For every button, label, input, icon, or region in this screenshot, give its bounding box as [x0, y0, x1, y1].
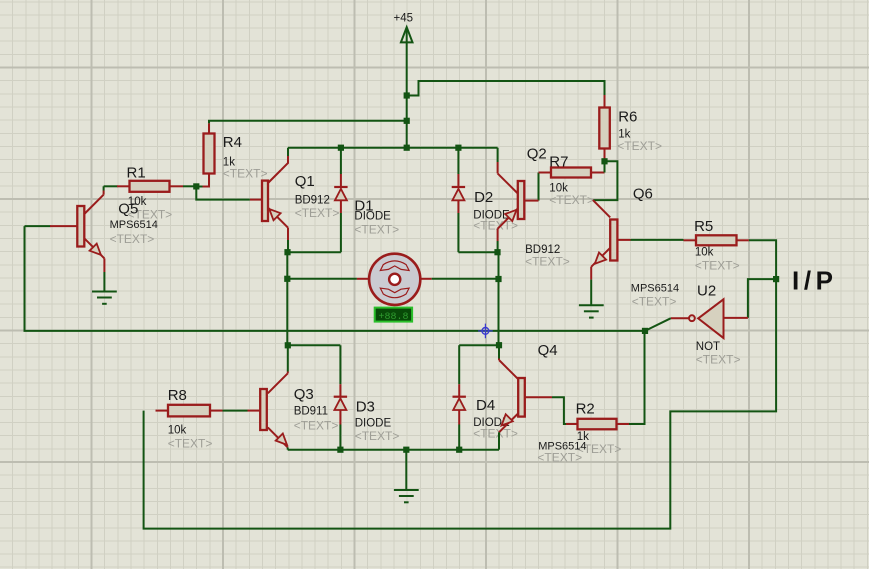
svg-text:R4: R4: [223, 134, 242, 151]
junction +45 jog: [404, 92, 410, 98]
junction R6-R7-Q6: [601, 158, 607, 164]
diode D1 symbol: [334, 187, 347, 200]
svg-text:<TEXT>: <TEXT>: [695, 259, 740, 273]
motor M1: [369, 254, 420, 305]
ground bottom symbol: [394, 490, 419, 502]
svg-text:R8: R8: [168, 387, 187, 404]
diode D1: [340, 148, 342, 253]
junction node A: [285, 342, 291, 348]
junction motor left: [284, 276, 290, 282]
wire R7 right to node: [591, 161, 605, 172]
svg-text:Q3: Q3: [294, 386, 314, 403]
diode D1 labels: [354, 198, 399, 237]
wire motor right vertical: [498, 252, 500, 345]
wire +45 to R4 top: [209, 121, 407, 134]
junction D3 bottom: [337, 447, 343, 453]
svg-text:10k: 10k: [168, 425, 187, 437]
resistor R8: [156, 387, 223, 451]
junction I/P node: [773, 276, 779, 282]
svg-text:Q5: Q5: [118, 201, 138, 218]
transistor Q3 labels: [294, 386, 339, 433]
transistor Q5 labels: [110, 201, 158, 247]
resistor R5: [684, 218, 749, 273]
svg-text:<TEXT>: <TEXT>: [617, 139, 662, 153]
svg-text:+45: +45: [394, 12, 414, 24]
power +45 symbol: [394, 12, 414, 147]
svg-text:<TEXT>: <TEXT>: [294, 419, 339, 433]
diode D3 symbol: [334, 397, 347, 410]
wire bottom feedback loop I/P to R8: [144, 240, 777, 528]
svg-text:U2: U2: [697, 283, 716, 300]
wire U2 output diagonal: [645, 318, 689, 331]
svg-text:<TEXT>: <TEXT>: [537, 451, 582, 465]
junction R1-R4-Q1: [193, 183, 199, 189]
svg-text:<TEXT>: <TEXT>: [355, 429, 400, 443]
svg-text:<TEXT>: <TEXT>: [549, 193, 594, 207]
junction U2 output: [642, 328, 648, 334]
svg-text:<TEXT>: <TEXT>: [223, 167, 268, 181]
transistor Q4 labels: [537, 342, 586, 465]
transistor Q2: [498, 148, 539, 253]
svg-text:R5: R5: [694, 218, 713, 235]
origin marker: [478, 324, 493, 339]
wire Q6 base to R5: [631, 239, 684, 241]
wire motor right lead: [419, 278, 498, 280]
ground Q6 emitter: [579, 305, 604, 317]
diode D4 symbol: [453, 397, 466, 410]
diode D2 symbol: [452, 187, 465, 200]
wire node A to D3 top: [288, 344, 341, 346]
svg-text:Q1: Q1: [295, 173, 315, 190]
wire R2 right to feedback rail: [629, 331, 645, 424]
label I/P: [792, 266, 838, 296]
transistor Q4: [499, 345, 552, 450]
svg-text:<TEXT>: <TEXT>: [696, 353, 741, 367]
motor display +88.8: [375, 308, 412, 323]
ground bottom rail: [405, 450, 407, 490]
svg-text:BD912: BD912: [295, 195, 330, 207]
junction D2 top: [455, 145, 461, 151]
junction +45 R4: [404, 118, 410, 124]
transistor Q6 labels: [631, 186, 679, 309]
svg-text:MPS6514: MPS6514: [631, 283, 679, 295]
wire node to Q6 collector: [593, 161, 618, 200]
junction ground rail: [403, 447, 409, 453]
svg-text:NOT: NOT: [696, 341, 720, 353]
wire Q5 collector to R1: [104, 185, 118, 187]
svg-text:D3: D3: [356, 399, 375, 416]
resistor R2: [566, 401, 629, 457]
wire bottom bridge rail: [288, 449, 499, 451]
svg-text:<TEXT>: <TEXT>: [354, 223, 399, 237]
svg-text:<TEXT>: <TEXT>: [525, 255, 570, 269]
diode D4: [458, 345, 460, 450]
svg-text:<TEXT>: <TEXT>: [473, 427, 518, 441]
junction Q1 emitter: [284, 249, 290, 255]
svg-text:BD911: BD911: [294, 406, 328, 418]
svg-text:D4: D4: [476, 397, 495, 414]
wire +45 jog to R6 top: [407, 81, 605, 108]
wire Q5 base horizontal: [25, 225, 51, 227]
junction Q2 emitter: [494, 249, 500, 255]
svg-text:<TEXT>: <TEXT>: [168, 437, 213, 451]
resistor R6: [599, 108, 662, 154]
transistor Q3: [248, 345, 288, 449]
transistor Q6: [591, 200, 630, 305]
svg-text:MPS6514: MPS6514: [110, 219, 158, 231]
resistor R1: [117, 165, 183, 222]
wire I/P node to U2 input: [748, 279, 776, 318]
wire R6 bottom to node: [604, 149, 606, 162]
junction D1 top: [338, 145, 344, 151]
svg-text:Q4: Q4: [538, 342, 558, 359]
wire motor left lead: [287, 278, 369, 280]
diode D2 labels: [473, 189, 518, 233]
junction +45 top rail: [404, 145, 410, 151]
inverter U2 labels: [696, 283, 741, 367]
transistor Q1: [250, 148, 288, 253]
diode D4 labels: [473, 397, 518, 441]
wire Q1 emitter to D1 bottom: [288, 251, 341, 253]
wire R1 right to node: [183, 185, 204, 187]
svg-text:Q2: Q2: [527, 146, 547, 163]
diode D3: [339, 345, 341, 449]
junction motor right: [495, 276, 501, 282]
svg-text:I/P: I/P: [792, 266, 838, 296]
svg-text:DIODE: DIODE: [354, 211, 391, 223]
wire D2 bottom to Q2 emitter: [458, 251, 497, 253]
svg-text:+88.8: +88.8: [378, 312, 408, 323]
svg-text:DIODE: DIODE: [355, 417, 392, 429]
wire Q4 base to R2: [552, 397, 566, 424]
wire Q2 base to R7: [539, 173, 552, 201]
resistor R7: [539, 154, 594, 208]
inverter U2: [689, 299, 748, 338]
svg-text:<TEXT>: <TEXT>: [632, 295, 677, 309]
svg-text:R1: R1: [127, 165, 146, 182]
junction node B: [496, 342, 502, 348]
junction D4 bottom: [456, 447, 462, 453]
wire top bridge rail: [288, 147, 498, 149]
ground Q5 emitter: [92, 292, 117, 304]
diode D3 labels: [355, 399, 400, 444]
svg-text:R6: R6: [618, 109, 637, 126]
wire node B to D4 top: [459, 344, 499, 346]
transistor Q5: [50, 186, 104, 291]
transistor Q2 labels: [525, 146, 570, 269]
svg-text:<TEXT>: <TEXT>: [110, 232, 155, 246]
svg-text:R2: R2: [576, 401, 595, 418]
diode D2: [457, 148, 459, 253]
svg-text:<TEXT>: <TEXT>: [295, 206, 340, 220]
svg-text:Q6: Q6: [633, 186, 653, 203]
svg-text:10k: 10k: [695, 247, 714, 259]
wire R1 R4 node to Q1 base: [196, 186, 250, 199]
svg-text:D2: D2: [474, 189, 493, 206]
svg-text:R7: R7: [549, 154, 568, 171]
wire R8 to Q3 base: [223, 410, 248, 412]
resistor R4: [203, 134, 268, 187]
wire left vertical and feedback rail to U2 output: [25, 226, 646, 331]
transistor Q1 labels: [295, 173, 340, 220]
wire motor left vertical: [286, 252, 288, 345]
